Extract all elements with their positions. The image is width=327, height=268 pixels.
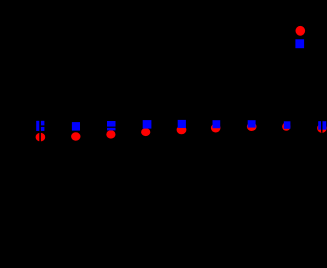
atom N10 (top-right blue square) [295, 39, 304, 48]
atom O10 (top-right red circle) [296, 26, 306, 36]
atom N3 (blue square) [107, 121, 116, 130]
atom N2 (blue square) [72, 122, 80, 131]
atom O6 (red circle) [211, 124, 221, 133]
atom O7 (red circle) [247, 122, 257, 131]
atom O9 (red circle) [317, 124, 327, 133]
bond overlay horizontal at N3 [107, 127, 116, 128]
bond overlay vertical at N1/O1 [39, 121, 41, 143]
atom N8 (blue square) [284, 121, 291, 129]
bond overlay horizontal at N1 [40, 125, 45, 127]
atom N9 (blue square) [318, 121, 326, 130]
atom O4 (red circle) [141, 128, 150, 136]
atom O8 (red circle) [282, 122, 290, 130]
atom O2 (red circle) [71, 132, 80, 140]
atom O3 (red circle) [106, 130, 115, 138]
atom N5 (blue square) [178, 120, 186, 128]
atom O1 (red circle) [36, 133, 46, 142]
atom O5 (red circle) [177, 125, 187, 134]
atom N7 (blue square) [248, 120, 256, 127]
bond overlay vertical at N9/O9 [321, 121, 323, 133]
atom N6 (blue square) [213, 120, 221, 128]
atom N4 (blue square) [143, 120, 152, 129]
atom N1 (blue square) [36, 121, 44, 131]
